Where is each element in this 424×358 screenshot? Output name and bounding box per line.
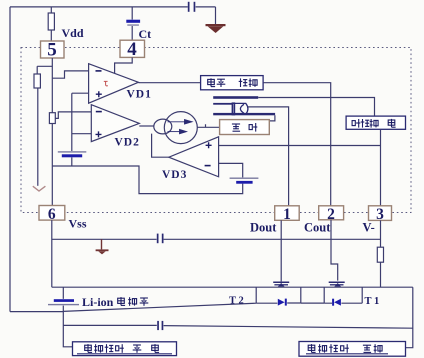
gate U2 lower input bar: [213, 113, 275, 115]
svg-text:T1: T1: [365, 296, 382, 307]
wire battery stem: [62, 287, 64, 326]
gate U2 body: [232, 103, 248, 114]
svg-text:4: 4: [127, 39, 137, 60]
svg-text:Ct: Ct: [139, 27, 152, 41]
arrows inside oscillator: [168, 120, 193, 134]
wire battery negative row to T2 source: [10, 303, 256, 311]
wire short-circuit detector to V- column: [380, 129, 382, 206]
pin 1 box: [275, 206, 300, 223]
wire Ct pin into VD1 strobe: [115, 58, 133, 74]
wire bus to short-circuit detector: [258, 98, 374, 117]
short-circuit detect box 短路检测: [346, 116, 405, 129]
pin 3 box: [369, 206, 392, 223]
wire top rail: [10, 6, 216, 8]
battery pack positive terminal box: [73, 342, 177, 356]
capacitor C4 (pack row): [157, 321, 163, 330]
svg-text:Li-ion: Li-ion: [82, 295, 114, 309]
wire right outer rail to negative terminal: [404, 287, 413, 348]
pin 4 box: [120, 39, 145, 60]
svg-text:1: 1: [283, 206, 291, 223]
wire Cout to T1 gate: [331, 220, 338, 281]
wire ground return rail: [52, 166, 242, 194]
red mark inside VD1: [104, 81, 108, 85]
wire VD3 output up to oscillator: [152, 134, 169, 158]
svg-text:T2: T2: [229, 296, 246, 307]
label Li-ion cell: [82, 295, 148, 309]
wire pin6 rail down: [51, 220, 53, 287]
reference battery B3: [230, 178, 259, 184]
wire top-right drop to ground: [215, 7, 217, 24]
resistor R4 (V- sense): [377, 247, 383, 262]
wire left outer rail: [9, 7, 11, 312]
transistor T2: [256, 282, 301, 305]
op-amp VD3 (points left): [169, 137, 219, 177]
svg-text:VD1: VD1: [127, 89, 152, 101]
gate U2 upper input bar: [213, 103, 232, 105]
svg-text:VD3: VD3: [162, 169, 187, 181]
transistor T1: [301, 282, 362, 306]
wire oscillator output to delay: [197, 124, 219, 127]
wire VD2 plus input: [72, 133, 92, 135]
wire main source rail: [52, 286, 413, 288]
wire pin5 rail inside IC: [51, 58, 53, 206]
delay box 延 时: [220, 120, 270, 135]
ground (below Vss rail): [96, 239, 109, 254]
wire delay output stub: [269, 115, 275, 121]
ground (inside IC, open chevron): [33, 186, 46, 191]
wire divider branch to R2: [37, 66, 52, 74]
oscillator circle: [154, 112, 198, 144]
wire VD3 minus to reference battery B3: [219, 163, 243, 177]
resistor R2 (divider upper): [34, 74, 40, 88]
capacitor C2 Ct: [126, 20, 140, 26]
svg-text:VD2: VD2: [115, 136, 140, 148]
wire R2 bottom to ground arrow: [37, 88, 39, 186]
ground (top right): [206, 24, 226, 33]
wire VD2 minus input: [55, 112, 91, 119]
wire pack positive row: [63, 325, 413, 328]
pin 2 box: [319, 206, 344, 223]
pin 5 box: [41, 40, 65, 61]
battery pack negative terminal box: [299, 342, 406, 357]
op-amp VD1: [89, 64, 139, 103]
reference battery B1: [58, 151, 87, 157]
wire V- pin to R4 and rail: [380, 220, 382, 287]
wire VD1 plus input: [72, 92, 89, 94]
capacitor C1 (series, top rail): [188, 2, 196, 12]
IC dashed boundary: [21, 48, 411, 213]
battery B2 Li-ion cell: [48, 299, 79, 305]
wire Dout to T2 gate: [280, 220, 282, 281]
svg-text:Cout: Cout: [304, 221, 331, 235]
wire VD2 output to oscillator: [139, 125, 154, 127]
pin 6 box: [39, 206, 65, 224]
wire Vss horizontal rail: [52, 238, 381, 240]
svg-text:Vss: Vss: [69, 217, 87, 231]
capacitor C3 (Vss rail): [157, 234, 164, 244]
svg-text:5: 5: [47, 40, 57, 61]
resistor R3 (divider lower): [49, 113, 55, 124]
svg-text:Vdd: Vdd: [62, 26, 84, 40]
gate U2 input bus (thick): [213, 96, 258, 99]
svg-text:V-: V-: [363, 221, 375, 235]
wire VD3 plus rail to V- pin column: [219, 145, 381, 147]
wire battery to positive terminal box: [63, 326, 72, 347]
svg-text:Dout: Dout: [250, 221, 277, 235]
wire VD1 output to level shifter: [138, 82, 200, 84]
wire VD1 minus input: [52, 71, 88, 78]
wire level shifter output to Cout pin: [263, 83, 331, 207]
op-amp VD2: [91, 105, 139, 142]
wire Ct feed down to capacitor and pin 4: [131, 7, 133, 40]
resistor R1 (Vdd supply): [48, 13, 54, 30]
wire Vdd feed down to resistor and pin 5: [50, 7, 52, 41]
wire gate output to Dout pin: [248, 107, 289, 206]
wire reference rail: [71, 93, 73, 166]
level shift box 电平 转换: [201, 76, 264, 90]
